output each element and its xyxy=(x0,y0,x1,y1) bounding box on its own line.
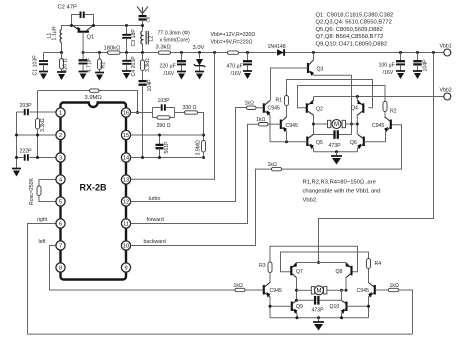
svg-text:1.1µH: 1.1µH xyxy=(52,26,58,40)
pin 4 xyxy=(56,175,65,184)
capacitor 203P xyxy=(24,109,30,116)
wire R4 bottom to C945R collector xyxy=(368,269,370,284)
svg-text:473P: 473P xyxy=(329,143,342,149)
ground under 4.7uF xyxy=(79,71,88,73)
wire pin16 net xyxy=(131,112,153,114)
node Q1 left xyxy=(70,24,73,27)
ground under zener xyxy=(195,71,204,73)
capacitor 222P xyxy=(24,154,30,161)
pin 12 xyxy=(121,197,130,206)
pin 6 xyxy=(56,219,65,228)
transistor Q5 xyxy=(306,137,308,147)
wire left ground riser xyxy=(16,112,18,168)
capacitor C2 feedback loop wire xyxy=(72,15,80,26)
svg-text:Q9,Q10: D471,C8050,D882: Q9,Q10: D471,C8050,D882 xyxy=(316,41,388,47)
wire C945R emitter riser to rail xyxy=(368,297,370,318)
wire 1k right to bottom return xyxy=(399,290,413,334)
svg-text:2: 2 xyxy=(59,133,62,139)
ground under C4 xyxy=(122,70,131,72)
node 3.9M to pin16 xyxy=(136,111,139,114)
svg-text:R1,R2,R3,R4=80~150Ω ,are: R1,R2,R3,R4=80~150Ω ,are xyxy=(303,180,376,186)
diode 1N4148 xyxy=(277,49,284,56)
wire cross B Q2-base to R2-top xyxy=(298,86,386,108)
transistor Q2 xyxy=(306,103,308,113)
node Q4 emitter on rail xyxy=(356,95,359,98)
svg-text:Q10: Q10 xyxy=(330,304,340,310)
parallel RC frame xyxy=(152,108,154,118)
capacitor 100uF electrolytic xyxy=(400,53,402,61)
node lower motor-right xyxy=(345,289,348,292)
wire 1k to C945 base riser xyxy=(282,125,402,169)
svg-text:Vbb2.: Vbb2. xyxy=(303,198,319,204)
node 3.0V tap xyxy=(213,51,216,54)
svg-text:R4: R4 xyxy=(375,261,382,267)
wire pin15 net xyxy=(131,134,204,136)
svg-text:/16V: /16V xyxy=(383,70,394,76)
ground under 820 xyxy=(57,71,66,73)
resistor 3.9M vertical xyxy=(202,141,206,153)
svg-text:561P: 561P xyxy=(164,141,170,154)
node 561P top xyxy=(158,134,161,137)
inductor L1 xyxy=(61,28,63,30)
svg-text:R1: R1 xyxy=(276,98,283,104)
svg-text:3.9MΩ: 3.9MΩ xyxy=(196,140,202,156)
svg-text:Q9: Q9 xyxy=(296,304,303,310)
svg-text:turbo: turbo xyxy=(149,196,161,202)
transistor Q10 xyxy=(345,302,347,312)
svg-text:470 µF: 470 µF xyxy=(227,64,243,70)
capacitor 473P lower across motor xyxy=(297,299,315,301)
svg-text:M: M xyxy=(334,122,339,128)
svg-text:103P: 103P xyxy=(158,98,171,104)
svg-text:Q4: Q4 xyxy=(351,106,358,112)
node C3 bottom on bus xyxy=(125,51,128,54)
wire pin11 forward net xyxy=(131,124,259,223)
wire cross A2 R3-top to Q8-base xyxy=(270,246,358,272)
node Q3 collector on bus xyxy=(312,51,315,54)
svg-text:C945: C945 xyxy=(372,123,385,129)
resistor 1k backward xyxy=(272,167,282,170)
wire Q3 emitter to motor-right xyxy=(314,75,352,134)
svg-text:1kΩ: 1kΩ xyxy=(256,117,265,123)
svg-text:1kΩ: 1kΩ xyxy=(390,283,399,289)
wire Vbb1 riser to lower block xyxy=(319,53,434,263)
wire bridge top rail xyxy=(313,97,315,102)
svg-text:10: 10 xyxy=(123,244,129,250)
ground under 100uF xyxy=(396,70,405,72)
ground under 220uF xyxy=(177,71,186,73)
pin 8 xyxy=(56,263,65,272)
capacitor C2 plates xyxy=(80,12,82,19)
svg-text:Vbb1: Vbb1 xyxy=(440,44,452,50)
svg-text:Vbb2: Vbb2 xyxy=(440,88,452,94)
svg-text:Q7: Q7 xyxy=(296,269,303,275)
capacitor 4.7uF electrolytic xyxy=(82,53,84,60)
svg-text:820 Ω: 820 Ω xyxy=(63,58,69,72)
node lower cross left xyxy=(295,299,298,302)
antenna xyxy=(137,7,148,16)
node ground lower rail xyxy=(317,316,320,319)
node Q9 emitter rail xyxy=(296,316,299,319)
node 3.3k pin2 xyxy=(36,134,39,137)
wire pin10 backward net xyxy=(131,169,272,245)
resistor 3.3k vertical under L2 xyxy=(142,53,144,61)
svg-text:Vbb=+12V,R=330Ω: Vbb=+12V,R=330Ω xyxy=(211,32,256,38)
svg-text:3.3kΩ: 3.3kΩ xyxy=(40,118,46,132)
svg-text:Q6: Q6 xyxy=(350,140,357,146)
svg-text:330 Ω: 330 Ω xyxy=(183,105,197,111)
svg-text:M: M xyxy=(317,289,322,295)
pin 16 xyxy=(121,108,130,117)
wire 330 to 3.9M corner xyxy=(198,113,204,141)
capacitor C4 xyxy=(126,53,128,61)
motor M upper xyxy=(314,123,329,125)
svg-text:6: 6 xyxy=(59,222,62,228)
wire pin14 net xyxy=(131,157,204,159)
ground under 470uF xyxy=(243,70,252,72)
wire Q6 base to C945R emitter xyxy=(364,132,386,142)
svg-text:9: 9 xyxy=(124,266,127,272)
node pin15 3.9M xyxy=(202,134,205,137)
ground left column xyxy=(12,168,21,170)
terminal Vbb1 xyxy=(444,49,451,56)
svg-text:Q2: Q2 xyxy=(316,107,323,113)
terminal Vbb2 xyxy=(444,93,451,100)
wire tank node y=52 xyxy=(44,52,62,54)
resistor 3.3k horizontal on bus xyxy=(159,51,171,54)
pin 13 xyxy=(121,175,130,184)
svg-text:R2: R2 xyxy=(390,109,397,115)
wire pin6 right-output xyxy=(28,224,413,335)
node 104P line on pin14 xyxy=(141,156,144,159)
wire Q10 base net xyxy=(347,305,369,307)
resistor 3.9M feedback xyxy=(90,89,100,92)
ground lower bridge xyxy=(318,318,320,322)
ground under 104P xyxy=(413,70,422,72)
svg-text:C4 203P: C4 203P xyxy=(131,56,137,77)
node C945L emitter to Q9 base xyxy=(269,305,272,308)
svg-text:16: 16 xyxy=(123,111,129,117)
node Q10 emitter rail xyxy=(340,316,343,319)
svg-text:473P: 473P xyxy=(312,308,325,314)
resistor 1k left xyxy=(235,288,245,291)
svg-text:Q1: Q1 xyxy=(87,35,95,41)
transistor Q7 xyxy=(290,266,292,276)
pin 5 xyxy=(56,197,65,206)
capacitor 220uF electrolytic xyxy=(181,53,183,61)
capacitor 561P xyxy=(159,135,161,145)
capacitor antenna coupling xyxy=(139,15,147,17)
capacitor C1 xyxy=(43,53,45,61)
node 3.9M pin14 xyxy=(202,156,205,159)
svg-text:Q3: Q3 xyxy=(317,67,324,73)
wire motor-right column xyxy=(356,115,358,135)
transistor Q9 xyxy=(291,302,293,312)
svg-text:Q2,Q3,Q4: 5610,C8550,B772: Q2,Q3,Q4: 5610,C8550,B772 xyxy=(316,20,392,26)
wire R1 bottom to C945 collector xyxy=(286,106,288,118)
node antenna/L2 xyxy=(141,24,144,27)
svg-text:changeable with the Vbb1 and: changeable with the Vbb1 and xyxy=(303,189,381,195)
svg-text:backward: backward xyxy=(144,239,166,245)
svg-text:4: 4 xyxy=(59,178,62,184)
pin 10 xyxy=(121,241,130,250)
wire C945 emitter to Q5 base xyxy=(269,115,271,142)
wire Q5 base net xyxy=(270,141,307,143)
wire cross B2 Q7-base to R4-top xyxy=(281,252,369,272)
svg-text:left: left xyxy=(39,239,46,245)
svg-text:Vbb=+9V,R=220Ω: Vbb=+9V,R=220Ω xyxy=(211,40,253,46)
svg-text:3.3kΩ: 3.3kΩ xyxy=(156,45,172,51)
pin 11 xyxy=(121,219,130,228)
wire supply bus y=52 xyxy=(120,52,159,54)
transistor Q3 xyxy=(313,53,315,61)
node 220uF top xyxy=(180,51,183,54)
capacitor C3 xyxy=(126,26,128,35)
svg-text:1: 1 xyxy=(59,111,62,117)
svg-text:13: 13 xyxy=(123,178,129,184)
resistor R4 xyxy=(367,259,371,269)
node C3 top xyxy=(125,24,128,27)
svg-text:Q1: C9018,C1815,C380,C382: Q1: C9018,C1815,C380,C382 xyxy=(316,13,394,19)
svg-text:/16V: /16V xyxy=(164,71,175,77)
wire 3.9M feedback top xyxy=(38,90,90,92)
svg-text:3.3kΩ: 3.3kΩ xyxy=(145,58,151,72)
node C945R emitter to Q10 base xyxy=(367,305,370,308)
pin 9 xyxy=(121,263,130,272)
svg-text:C1 103P: C1 103P xyxy=(33,55,39,76)
capacitor 473P upper across motor xyxy=(314,134,334,136)
svg-text:Rosc=250K: Rosc=250K xyxy=(29,177,35,205)
wire Vbb2 rail xyxy=(314,96,444,98)
transistor Q8 xyxy=(350,266,352,276)
node 561P bottom xyxy=(158,156,161,159)
svg-text:1N4148: 1N4148 xyxy=(268,44,286,50)
node 104P top xyxy=(416,51,419,54)
svg-text:3.9MΩ: 3.9MΩ xyxy=(85,95,103,101)
ground upper bridge xyxy=(336,152,338,156)
capacitor 470uF electrolytic xyxy=(247,53,249,61)
diode zener 3V xyxy=(199,53,201,59)
svg-text:C3 18P: C3 18P xyxy=(131,29,137,47)
svg-text:203P: 203P xyxy=(20,103,33,109)
transistor C945 turbo driver xyxy=(263,103,265,113)
pin 1 xyxy=(56,108,65,117)
svg-text:3: 3 xyxy=(59,156,62,162)
wire lower motor-right column xyxy=(345,277,347,290)
resistor R1 xyxy=(285,96,289,106)
svg-text:4.7 µF: 4.7 µF xyxy=(87,58,93,73)
pin 3 xyxy=(56,153,65,162)
resistor Vbb dropping 330/220 xyxy=(228,51,239,54)
svg-text:Q7,Q8: B564,C8550,B772: Q7,Q8: B564,C8550,B772 xyxy=(316,34,384,40)
svg-text:forward: forward xyxy=(147,217,164,223)
wire lower motor-left column xyxy=(296,277,298,300)
svg-text:1kΩ: 1kΩ xyxy=(268,162,277,168)
svg-text:12: 12 xyxy=(123,200,129,206)
svg-text:C6: C6 xyxy=(146,16,151,22)
transistor C945 backward driver xyxy=(390,120,392,130)
wire filter node to R2 xyxy=(83,52,107,54)
svg-text:RX-2B: RX-2B xyxy=(80,183,108,193)
motor M lower xyxy=(297,289,313,291)
svg-text:104P: 104P xyxy=(147,79,153,92)
node lower cross right xyxy=(340,289,343,292)
node Vbb1 branch xyxy=(432,51,435,54)
node motor-left xyxy=(312,123,315,126)
node ground rail xyxy=(335,150,338,153)
svg-text:7T 0.3mm (Φ): 7T 0.3mm (Φ) xyxy=(158,31,191,37)
wire Q9 base net xyxy=(270,305,292,307)
resistor 1k right xyxy=(389,288,399,291)
IC body RX-2B xyxy=(61,103,127,280)
node motor-right Q3E xyxy=(350,123,353,126)
svg-text:390 Ω: 390 Ω xyxy=(157,123,171,129)
wire C945L emitter riser to rail xyxy=(269,297,271,318)
ground under R2 xyxy=(95,72,104,74)
wire lower bridge top rail xyxy=(297,262,347,264)
wire bridge bottom rail xyxy=(314,151,358,153)
svg-text:L2: L2 xyxy=(149,36,155,42)
pin 2 xyxy=(56,130,65,139)
pin 7 xyxy=(56,241,65,250)
node Q1 right xyxy=(92,24,95,27)
transistor Q4 xyxy=(362,103,364,113)
node C945b emitter junction xyxy=(285,140,288,143)
transistor Q6 xyxy=(363,137,365,147)
wire pin7 left-output xyxy=(50,246,236,291)
svg-text:C945: C945 xyxy=(357,288,370,294)
wire pin1 net xyxy=(17,111,61,113)
svg-text:222P: 222P xyxy=(20,149,33,155)
node pin2 left xyxy=(15,134,18,137)
pin 14 xyxy=(121,153,130,162)
transistor C945 right driver xyxy=(374,285,376,295)
capacitor 103P xyxy=(161,104,163,110)
resistor 180k xyxy=(108,51,121,54)
wire lower bridge bottom rail xyxy=(270,317,369,319)
svg-text:C945: C945 xyxy=(286,123,299,129)
wire R2 bottom to C945R collector xyxy=(384,112,386,119)
svg-text:220 µF: 220 µF xyxy=(160,64,176,70)
node Q1 base / filter junction xyxy=(82,51,85,54)
wire cross A R1-top to Q4-base xyxy=(287,80,373,108)
resistor R3 xyxy=(268,262,272,273)
node motor-right Q4C xyxy=(356,123,359,126)
svg-text:x 5mm(Core): x 5mm(Core) xyxy=(160,38,191,44)
capacitor 104P bypass xyxy=(417,53,419,61)
svg-text:Q5,Q6: C8050,5609,D882: Q5,Q6: C8050,5609,D882 xyxy=(316,27,383,33)
transistor C945 left driver xyxy=(263,285,265,295)
wire pin3 net xyxy=(17,157,61,159)
resistor 3.3k osc xyxy=(37,91,39,119)
svg-text:8: 8 xyxy=(59,266,62,272)
wire Q3 base to C945 collector xyxy=(271,68,309,101)
wire antenna node to L2 xyxy=(127,26,143,31)
svg-text:right: right xyxy=(37,217,48,223)
svg-text:15: 15 xyxy=(123,133,129,139)
svg-text:C945: C945 xyxy=(268,106,281,112)
ground under C1 xyxy=(39,71,48,73)
svg-text:100 µF: 100 µF xyxy=(379,63,395,69)
svg-text:Q8: Q8 xyxy=(336,269,343,275)
wire motor-left column xyxy=(313,115,315,135)
wire 104P down to pin14 net xyxy=(142,85,144,158)
capacitor 104P under 3.3k xyxy=(139,80,147,82)
node pin3 left xyxy=(15,156,18,159)
resistor 1k forward xyxy=(259,123,269,126)
svg-text:/16V: /16V xyxy=(231,71,242,77)
wire collector line y=25 xyxy=(62,26,127,28)
resistor 390 xyxy=(157,116,170,119)
resistor 820 ohm xyxy=(61,53,63,59)
node L2 bottom on bus xyxy=(141,51,144,54)
svg-text:1kΩ: 1kΩ xyxy=(245,101,254,107)
resistor 1k turbo xyxy=(247,106,257,109)
resistor R2 xyxy=(383,102,387,112)
resistor Rosc 250K xyxy=(39,180,61,187)
resistor R2 xyxy=(99,53,101,60)
node 100uF top xyxy=(399,51,402,54)
svg-text:R2: R2 xyxy=(101,62,107,69)
svg-text:R3: R3 xyxy=(259,263,266,269)
node 470uF top xyxy=(246,51,249,54)
node lower motor-left xyxy=(295,289,298,292)
pin 15 xyxy=(121,130,130,139)
wire Q1 base stem xyxy=(82,32,84,53)
svg-text:5: 5 xyxy=(59,200,62,206)
node L1/820 junction xyxy=(60,51,63,54)
transistor C945 forward driver xyxy=(280,120,282,130)
svg-text:C945: C945 xyxy=(270,288,283,294)
transistor Q1 xyxy=(78,31,90,33)
svg-text:104P: 104P xyxy=(423,59,429,72)
node 3.3k pin3 xyxy=(36,156,39,159)
node R2 top xyxy=(98,51,101,54)
svg-text:7: 7 xyxy=(59,244,62,250)
svg-text:1kΩ: 1kΩ xyxy=(234,283,243,289)
wire C945b emitter riser xyxy=(286,132,288,142)
svg-text:11: 11 xyxy=(123,222,129,228)
svg-text:Q5: Q5 xyxy=(316,140,323,146)
wire pin12 turbo net xyxy=(131,108,247,202)
svg-text:180kΩ: 180kΩ xyxy=(104,46,122,52)
node lower rail feed xyxy=(317,261,320,264)
node zener top xyxy=(198,51,201,54)
resistor 330 xyxy=(185,111,198,114)
wire 3.0V riser down to pin13 xyxy=(131,53,215,180)
inductor L2 with core xyxy=(141,31,143,44)
svg-text:14: 14 xyxy=(123,156,129,162)
wire R3 bottom to C945L collector xyxy=(269,273,271,284)
svg-text:C2 47P: C2 47P xyxy=(58,5,77,11)
svg-text:3.0V: 3.0V xyxy=(193,45,205,51)
wire pin2 net xyxy=(17,134,61,136)
